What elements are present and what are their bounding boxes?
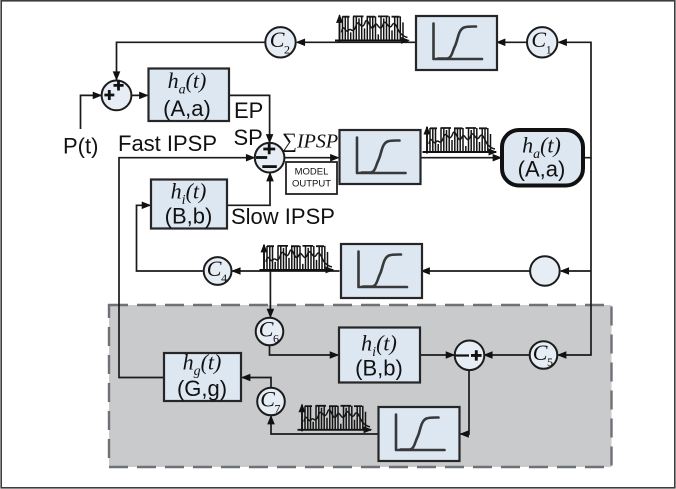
svg-text:OUTPUT: OUTPUT [292,179,331,190]
svg-text:C: C [260,386,275,411]
svg-text:(G,g): (G,g) [177,376,227,401]
svg-text:EP: EP [234,98,263,123]
svg-text:6: 6 [273,332,279,346]
svg-text:∑IPSP: ∑IPSP [282,129,338,153]
svg-text:MODEL: MODEL [295,167,329,178]
svg-text:C: C [533,340,548,365]
svg-text:(B,b): (B,b) [355,356,403,381]
svg-text:C: C [259,316,274,341]
svg-text:(A,a): (A,a) [518,157,566,182]
svg-text:7: 7 [275,402,281,416]
svg-text:4: 4 [221,271,227,285]
svg-text:Fast IPSP: Fast IPSP [118,131,217,156]
svg-text:Slow IPSP: Slow IPSP [231,204,335,229]
svg-text:C: C [531,27,546,52]
svg-text:2: 2 [284,42,290,56]
svg-text:C: C [270,27,285,52]
svg-text:P(t): P(t) [63,134,98,159]
svg-text:(B,b): (B,b) [165,204,213,229]
svg-text:1: 1 [546,42,552,56]
svg-text:C: C [207,256,222,281]
svg-text:(A,a): (A,a) [163,96,211,121]
svg-text:SP: SP [234,125,263,150]
svg-text:5: 5 [547,355,553,369]
